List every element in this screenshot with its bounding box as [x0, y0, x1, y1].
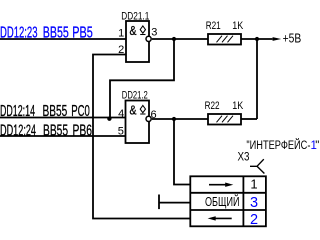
svg-text:PB6: PB6: [73, 122, 93, 139]
svg-text:+5В: +5В: [283, 32, 302, 46]
svg-text:&: &: [130, 104, 138, 118]
svg-text:DD21.2: DD21.2: [122, 90, 148, 102]
svg-text:2: 2: [118, 44, 124, 56]
svg-text:5: 5: [118, 125, 124, 137]
svg-text:1K: 1K: [232, 100, 244, 112]
svg-text:PB5: PB5: [72, 25, 93, 42]
svg-text:X3: X3: [238, 149, 250, 163]
svg-text:1: 1: [250, 177, 257, 192]
svg-text:R22: R22: [205, 100, 220, 112]
svg-text:6: 6: [151, 109, 157, 121]
svg-text:DD21.1: DD21.1: [121, 10, 149, 22]
svg-text:ОБЩИЙ: ОБЩИЙ: [205, 194, 240, 209]
svg-text:BB55: BB55: [43, 103, 68, 120]
svg-text:BB55: BB55: [43, 122, 68, 139]
svg-text:1K: 1K: [232, 20, 244, 32]
svg-text:PC0: PC0: [71, 103, 90, 120]
svg-text:DD12:23: DD12:23: [0, 25, 38, 42]
svg-text:&: &: [130, 24, 138, 38]
svg-text:": ": [315, 140, 319, 152]
svg-text:R21: R21: [206, 20, 221, 32]
svg-text:3: 3: [151, 27, 157, 39]
svg-text:DD12:14: DD12:14: [0, 103, 35, 120]
svg-text:1: 1: [118, 28, 124, 40]
svg-text:BB55: BB55: [43, 25, 69, 42]
svg-text:4: 4: [118, 108, 124, 120]
svg-text:3: 3: [250, 195, 258, 211]
svg-text:"ИНТЕРФЕЙС-: "ИНТЕРФЕЙС-: [246, 139, 310, 152]
svg-text:DD12:24: DD12:24: [0, 122, 36, 139]
svg-text:2: 2: [250, 212, 258, 228]
